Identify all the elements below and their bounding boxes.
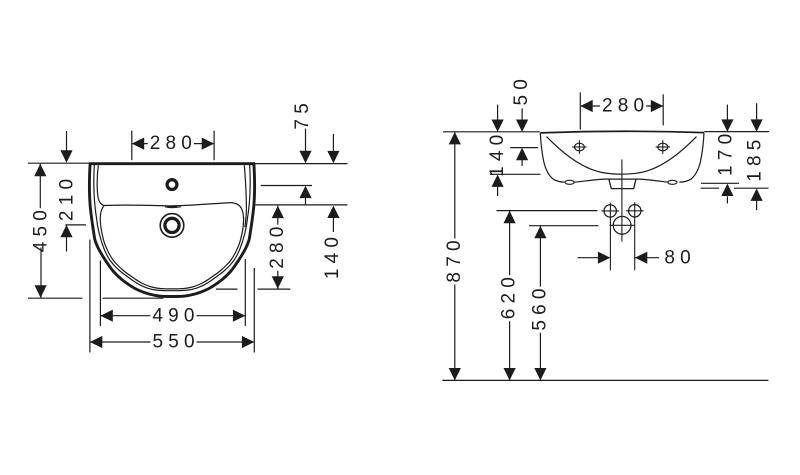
- svg-text:140: 140: [322, 232, 343, 279]
- svg-text:210: 210: [56, 174, 77, 221]
- svg-text:50: 50: [511, 74, 532, 106]
- svg-text:140: 140: [487, 130, 508, 177]
- svg-text:170: 170: [716, 129, 737, 176]
- svg-text:280: 280: [267, 221, 288, 268]
- svg-text:75: 75: [292, 98, 313, 130]
- svg-text:560: 560: [529, 283, 550, 330]
- svg-text:280: 280: [602, 96, 649, 117]
- svg-text:620: 620: [498, 272, 519, 319]
- svg-text:490: 490: [152, 305, 199, 326]
- svg-text:450: 450: [31, 205, 52, 252]
- svg-text:80: 80: [664, 248, 696, 269]
- svg-text:185: 185: [745, 134, 766, 181]
- svg-text:870: 870: [444, 235, 465, 282]
- svg-text:280: 280: [150, 133, 197, 154]
- svg-text:550: 550: [152, 332, 199, 353]
